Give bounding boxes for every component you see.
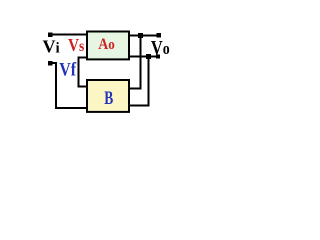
wire Ao left bottom stub [78,57,87,59]
wire into B right top [129,88,141,90]
wire stub to Vf node [50,62,57,64]
amplifier block Ao [87,32,129,60]
wire B left bottom to Vf [55,107,87,109]
feedback block B [87,80,129,112]
node Vf terminal [48,61,53,66]
svg-text:Ao: Ao [98,36,115,53]
wire vertical top output down to B [139,35,141,90]
wire into B left top [78,86,87,88]
wire vertical Vf up [55,62,57,109]
wire vertical bottom output down to B [148,57,150,107]
svg-text:B: B [104,88,113,109]
wire into B right bottom [129,105,150,107]
wire Vi input to Ao [50,34,87,36]
node Vo top terminal [157,33,161,37]
svg-text:Vi: Vi [43,37,60,57]
node junction top output [138,33,143,38]
svg-text:Vs: Vs [68,35,85,55]
wire Ao top output to Vo [129,35,161,37]
wire Ao bottom output [129,56,158,58]
svg-text:Vf: Vf [59,58,77,80]
wire vertical Ao left down [78,57,80,88]
node Vi terminal [48,32,53,37]
node junction bottom output [146,54,151,59]
svg-text:Vo: Vo [151,36,170,58]
node Vo bottom terminal [156,54,160,58]
